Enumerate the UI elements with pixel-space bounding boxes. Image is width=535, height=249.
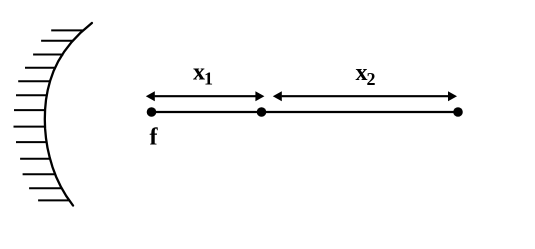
svg-text:x2: x2: [356, 60, 376, 89]
svg-text:f: f: [150, 125, 159, 151]
svg-text:x1: x1: [193, 60, 213, 89]
